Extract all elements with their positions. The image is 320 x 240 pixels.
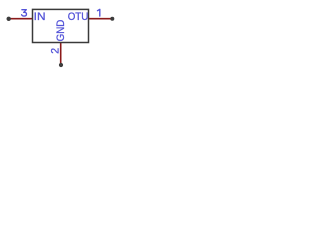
svg-text:2: 2 xyxy=(50,48,62,54)
svg-text:GND: GND xyxy=(55,19,67,41)
svg-text:OTU: OTU xyxy=(68,11,89,23)
svg-text:IN: IN xyxy=(34,11,46,23)
